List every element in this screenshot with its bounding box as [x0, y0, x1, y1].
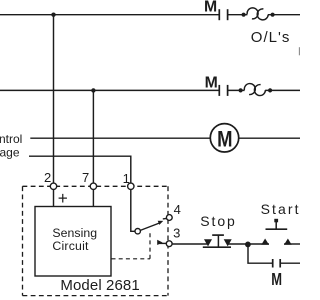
svg-text:M: M — [271, 270, 282, 289]
svg-text:M: M — [217, 128, 232, 152]
svg-text:ntrol: ntrol — [0, 132, 22, 146]
svg-text:M: M — [205, 75, 218, 92]
svg-text:+: + — [58, 188, 68, 208]
svg-text:1: 1 — [123, 171, 130, 186]
svg-text:Start: Start — [261, 201, 300, 217]
svg-text:7: 7 — [82, 170, 89, 185]
svg-text:4: 4 — [174, 202, 181, 217]
svg-text:age: age — [0, 145, 20, 159]
svg-text:Circuit: Circuit — [52, 239, 89, 253]
svg-text:O/L's: O/L's — [251, 29, 291, 46]
svg-text:M: M — [204, 0, 217, 16]
svg-text:Stop: Stop — [200, 213, 236, 229]
svg-text:3: 3 — [173, 225, 180, 240]
svg-text:2: 2 — [44, 170, 51, 185]
svg-text:Model 2681: Model 2681 — [60, 277, 139, 294]
